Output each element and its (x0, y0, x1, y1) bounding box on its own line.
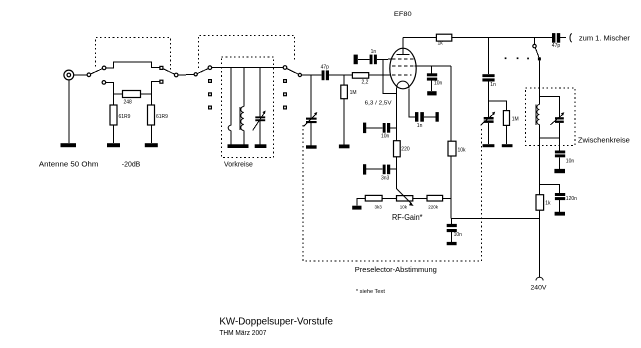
capacitor 1n g3 (354, 49, 377, 64)
switch S3 position dots (505, 57, 529, 59)
switch S2a position contacts (209, 80, 212, 109)
switch S1a lower contact (102, 81, 106, 85)
variable capacitor C4 (550, 112, 564, 138)
switch S2b pole (283, 66, 287, 70)
switch S2a input contact (194, 73, 197, 76)
dotted box Vorkreise (222, 57, 274, 158)
switch S3 pole (533, 37, 536, 48)
variable capacitor C3 (481, 101, 496, 144)
svg-text:10n: 10n (434, 81, 443, 87)
coupling loop (228, 125, 231, 130)
inductor L2 (536, 97, 539, 138)
potentiometer wiper (397, 189, 414, 206)
ground 1M (339, 145, 350, 149)
capacitor 10n rail (447, 218, 462, 242)
dashed box preselector (303, 125, 482, 261)
ground 10n tank (554, 169, 565, 173)
switch S1a blade (91, 69, 103, 74)
switch S1a pole (87, 73, 91, 77)
wire cap to grid (329, 74, 352, 76)
wire (382, 197, 396, 199)
wire g2 right (415, 65, 452, 67)
variable capacitor C1 (253, 67, 266, 144)
svg-text:1M: 1M (512, 117, 519, 123)
ground antenna (61, 143, 77, 147)
B+ rail (451, 217, 539, 219)
variable capacitor C2 (303, 75, 317, 145)
svg-text:* siehe Text: * siehe Text (356, 289, 385, 295)
resistor 220 cathode (394, 141, 410, 157)
wire (413, 197, 427, 199)
resistor 1M grid (341, 75, 357, 144)
capacitor 1n anode node (482, 37, 496, 101)
terminal 240V (536, 277, 543, 280)
ground C3 (483, 144, 495, 147)
ground vorkreise right (255, 144, 267, 148)
switch S1b pole (174, 73, 178, 77)
wire heater lead (409, 88, 415, 117)
dashed box selector (198, 36, 294, 68)
svg-text:RF-Gain*: RF-Gain* (392, 213, 423, 222)
capacitor 10n cathode (363, 123, 397, 140)
wire cap to connector (560, 36, 566, 38)
switch S2a pole (208, 66, 212, 70)
switch S1a upper contact (102, 66, 106, 70)
svg-text:EF80: EF80 (394, 11, 412, 18)
wire to input cap (302, 74, 322, 76)
switch S2b blade (287, 68, 299, 74)
svg-text:THM März 2007: THM März 2007 (219, 328, 266, 337)
svg-text:1k: 1k (545, 201, 551, 207)
svg-text:1n: 1n (371, 49, 377, 55)
ground vorkreise left (228, 144, 249, 148)
wire g2 down (450, 66, 452, 141)
switch S2a blade (197, 69, 208, 74)
wire right shunt (150, 94, 152, 105)
svg-text:3n3: 3n3 (381, 176, 390, 182)
wire antenna to switch (74, 74, 87, 76)
svg-text:240V: 240V (531, 286, 547, 292)
wire below 220 (396, 157, 398, 189)
ground 10n g2 (427, 91, 436, 95)
switch S2b output contact (298, 73, 301, 76)
switch S1b blade (163, 69, 175, 75)
svg-text:6,3 / 2,5V: 6,3 / 2,5V (365, 100, 392, 106)
svg-text:2,2: 2,2 (362, 80, 369, 86)
dashed box attenuator (96, 38, 171, 73)
svg-text:10n: 10n (454, 232, 463, 238)
resistor 61R9 left (110, 105, 117, 125)
svg-text:10k: 10k (458, 148, 467, 154)
wire node split (488, 101, 506, 110)
resistor 10k screen (448, 141, 466, 156)
svg-text:10k: 10k (400, 204, 408, 209)
resistor 3k3 (365, 195, 382, 209)
svg-text:120n: 120n (566, 196, 577, 202)
wire decoupling branch (539, 184, 559, 193)
tank top wire (539, 97, 559, 118)
svg-text:1k: 1k (438, 41, 444, 47)
capacitor 10n g2 (427, 66, 443, 91)
wire selector bus (212, 66, 283, 68)
tube EF80 U1 (390, 37, 416, 89)
switch S1b upper contact (160, 66, 163, 69)
resistor 1M right (503, 111, 518, 145)
resistor 1k supply (536, 195, 551, 211)
tank bottom wire (539, 137, 559, 139)
dotted box Zwischenkreise (526, 88, 575, 146)
svg-text:248: 248 (124, 100, 133, 106)
wire 1k to 240V (538, 210, 540, 277)
switch S1b lower contact (160, 80, 163, 83)
wire to g1 (369, 74, 392, 76)
capacitor 47p output (552, 33, 561, 49)
wire antenna down (68, 80, 70, 143)
ground RF gain (352, 198, 365, 209)
wire g3 to cathode (383, 59, 397, 93)
capacitor 47p input (321, 65, 330, 81)
svg-text:47p: 47p (552, 43, 561, 49)
svg-text:1n: 1n (417, 123, 423, 129)
ground right shunt (145, 143, 158, 147)
wire cathode down (396, 88, 398, 141)
ground 120n (555, 212, 565, 216)
wire to selector (178, 74, 194, 77)
wire attenuator output (151, 82, 159, 94)
anode rail (403, 36, 437, 38)
capacitor 10n tank (555, 138, 574, 169)
wire to rail (443, 197, 452, 199)
potentiometer 10k (397, 196, 413, 210)
svg-text:1n: 1n (490, 82, 496, 88)
capacitor 120n (555, 193, 577, 212)
wire left shunt (112, 94, 114, 105)
capacitor 3n3 (363, 164, 397, 181)
svg-text:10n: 10n (566, 159, 575, 165)
switch S2b position contacts (284, 80, 287, 109)
ground 10n rail (447, 242, 457, 245)
wire g3 (377, 58, 392, 60)
ground left shunt (107, 143, 120, 147)
wire coupling link (230, 67, 232, 125)
svg-text:220k: 220k (428, 204, 439, 209)
wire bypass top (106, 62, 160, 68)
svg-text:Vorkreise: Vorkreise (224, 161, 253, 168)
capacitor 1n heater (415, 112, 439, 129)
svg-text:61R9: 61R9 (119, 114, 131, 120)
resistor 1k anode (436, 34, 451, 46)
wire screen resistor down (450, 156, 452, 218)
wire tank down (538, 138, 540, 195)
wire switch to tank (538, 60, 540, 96)
resistor 220k (427, 195, 443, 209)
wire attenuator input (106, 82, 114, 94)
svg-text:10n: 10n (381, 134, 390, 140)
ground 1M right (502, 144, 513, 147)
svg-text:47p: 47p (321, 65, 330, 71)
resistor 61R9 right (148, 105, 155, 125)
resistor 248 (123, 91, 141, 98)
svg-text:Preselector-Abstimmung: Preselector-Abstimmung (355, 265, 437, 274)
wire right shunt bottom (150, 125, 152, 143)
svg-text:-20dB: -20dB (122, 160, 141, 169)
svg-text:Zwischenkreise: Zwischenkreise (578, 138, 630, 145)
svg-text:KW-Doppelsuper-Vorstufe: KW-Doppelsuper-Vorstufe (219, 316, 333, 328)
wire pi right (141, 93, 152, 95)
switch S3 active contact (538, 57, 541, 60)
wire left shunt bottom (112, 125, 114, 143)
ground C2 (306, 145, 317, 148)
antenna connector J1 (64, 70, 74, 80)
svg-text:Antenne 50 Ohm: Antenne 50 Ohm (39, 160, 99, 169)
wire rail right (452, 36, 552, 38)
resistor 2,2 (352, 73, 368, 86)
svg-text:220: 220 (401, 147, 410, 153)
svg-text:zum 1. Mischer: zum 1. Mischer (579, 36, 631, 43)
svg-text:1M: 1M (350, 90, 357, 96)
svg-text:61R9: 61R9 (156, 114, 168, 120)
svg-text:3k3: 3k3 (375, 204, 383, 209)
inductor L1 (240, 67, 244, 144)
wire coupling link bottom (230, 131, 232, 145)
wire pi left (113, 93, 122, 95)
switch S3 blade (535, 48, 539, 58)
connector zum Mischer (570, 34, 572, 43)
